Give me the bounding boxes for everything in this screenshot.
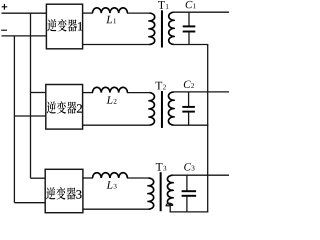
wire: - DC bus vertical drop xyxy=(13,36,15,203)
wire: inverter 1 output top to inductor L1 xyxy=(83,12,93,14)
wire: inverter 1 output bottom to transformer T1 primary xyxy=(83,44,150,46)
capacitor C3 xyxy=(182,175,197,212)
plus terminal label xyxy=(2,4,8,10)
wire: inverter 2 output bottom to transformer T2 primary xyxy=(83,124,150,126)
label T3 xyxy=(156,163,166,171)
label C1 xyxy=(186,1,196,8)
transformer T2 core xyxy=(161,91,163,128)
wire: inductor L2 to transformer T2 primary xyxy=(127,92,149,94)
transformer T2 secondary winding xyxy=(168,92,173,125)
inverter box 3 (逆变器3) xyxy=(45,169,83,212)
capacitor C2 xyxy=(182,92,195,125)
wire: - feed to inverter 3 xyxy=(14,202,45,204)
wire: inductor L1 to transformer T1 primary xyxy=(127,12,149,14)
wire: T3 secondary bottom drop to rail xyxy=(166,203,173,212)
wire: + DC bus vertical drop xyxy=(30,13,32,178)
capacitor C1 xyxy=(183,12,196,44)
wire: T1 secondary top output (phase 1) xyxy=(174,11,229,13)
wire: inverter 3 output top to inductor L3 xyxy=(83,177,93,179)
transformer T3 primary winding xyxy=(148,178,153,209)
inductor L3 xyxy=(93,173,128,189)
inductor L1 xyxy=(93,8,128,23)
wire: stage 3 bottom rail to neutral bus xyxy=(170,211,209,213)
wire: - feed to inverter 2 xyxy=(14,115,45,117)
wire: + feed to inverter 3 xyxy=(31,177,46,179)
wire: inverter 2 output top to inductor L2 xyxy=(83,92,93,94)
transformer T2 primary winding xyxy=(149,93,154,126)
wire: T2 secondary top output (phase 2) xyxy=(174,91,229,93)
transformer T3 secondary winding xyxy=(167,175,172,205)
wire: T1 secondary bottom to neutral bus xyxy=(174,44,208,46)
wire: T3 secondary top output (phase 3) xyxy=(173,174,229,176)
transformer T1 secondary winding xyxy=(169,12,174,44)
inductor L2 xyxy=(93,87,128,103)
wire: + feed to inverter 2 xyxy=(31,92,46,94)
wire: + DC bus horizontal xyxy=(2,12,47,14)
wire: inductor L3 to transformer T3 primary xyxy=(127,177,148,179)
wire: T2 secondary bottom to neutral bus xyxy=(174,124,208,126)
wire: - DC bus horizontal xyxy=(2,35,47,37)
minus terminal label xyxy=(1,29,7,31)
transformer T3 core xyxy=(160,172,162,211)
wire: inverter 3 output bottom to transformer T3 primary xyxy=(83,208,148,210)
transformer T1 core xyxy=(161,10,163,47)
transformer T1 primary winding xyxy=(149,13,154,44)
inverter box 2 (逆变器2) xyxy=(46,85,83,130)
wire: right neutral bus vertical xyxy=(207,45,209,212)
label T1 xyxy=(158,1,168,9)
label T2 xyxy=(156,82,166,90)
label C3 xyxy=(184,163,194,170)
inverter box 1 (逆变器1) xyxy=(46,4,82,49)
label C2 xyxy=(184,81,194,88)
